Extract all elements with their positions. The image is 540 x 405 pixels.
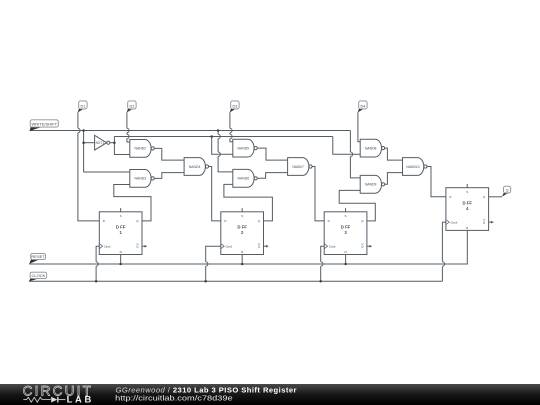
wire rail-A to NAND3 input — [84, 131, 130, 173]
svg-text:D FF: D FF — [116, 224, 126, 229]
junction node 8 — [344, 263, 347, 266]
flag D4 — [358, 101, 367, 113]
wire DFF1 R stub — [120, 255, 122, 265]
svg-text:D FF: D FF — [462, 200, 472, 205]
svg-text:D3: D3 — [232, 104, 237, 108]
D flip-flop U4 (D FF 4) — [446, 184, 494, 230]
wire DFF2 clock feed — [206, 246, 221, 281]
wire rail-A to NAND6 input — [218, 131, 233, 172]
wire WRITE/SHIFT rail — [30, 130, 351, 132]
flag RESET — [29, 253, 45, 264]
wire NAND10 out to DFF4 D — [427, 167, 446, 197]
junction node 9 — [95, 280, 98, 283]
NAND gate NAND6 — [233, 169, 257, 187]
wire D4 to NAND8 input — [358, 112, 360, 142]
NAND gate NAND10 — [403, 158, 428, 176]
svg-text:Clock: Clock — [329, 244, 336, 248]
footer CircuitLab bar — [0, 384, 540, 405]
NAND gate NAND8 — [360, 139, 385, 157]
junction node 10 — [204, 280, 207, 283]
svg-text:NAND9: NAND9 — [365, 183, 377, 187]
flag Q — [502, 186, 511, 197]
wire CLOCK rail — [29, 280, 443, 282]
svg-text:NAND10: NAND10 — [406, 165, 419, 169]
wire rail-B to NAND5 input — [212, 137, 233, 155]
svg-text:NAND8: NAND8 — [365, 146, 377, 150]
wire DFF4 clock feed — [442, 222, 446, 281]
junction node 6 — [119, 263, 122, 266]
svg-text:NAND7: NAND7 — [292, 165, 304, 169]
svg-text:Q: Q — [506, 188, 509, 192]
NAND gate NAND4 — [184, 158, 208, 176]
svg-text:NAND3: NAND3 — [135, 177, 147, 181]
inverter NOT1 — [95, 135, 115, 150]
wire NOT1 output node riser — [113, 137, 115, 143]
wire NAND5 out to NAND7 in1 — [257, 148, 287, 160]
wire NOT1 output to NAND2 input — [114, 143, 129, 155]
wire NAND8 out to NAND10 in1 — [385, 148, 403, 160]
junction node 2 — [217, 129, 220, 132]
svg-text:LAB: LAB — [67, 394, 94, 405]
svg-text:NAND6: NAND6 — [238, 177, 250, 181]
svg-text:S: S — [241, 214, 243, 218]
svg-text:S: S — [345, 214, 347, 218]
D flip-flop U3 (D FF 3) — [324, 208, 372, 254]
wire rail-B to NAND8 input — [333, 137, 360, 155]
wire NAND3 out to NAND4 in2 — [154, 173, 184, 179]
junction node 11 — [319, 280, 322, 283]
wire DFF1 Q to NAND3 input — [114, 185, 151, 221]
wire NAND4 out to DFF2 D — [209, 167, 221, 221]
wire DFF3 clock feed — [321, 246, 325, 281]
wire DFF4 Q to Q flag — [489, 196, 502, 198]
flag D3 — [230, 101, 239, 113]
wire NOT1-output rail — [114, 136, 332, 138]
junction node 3 — [210, 135, 213, 138]
wire D3 to NAND5 input — [230, 112, 233, 142]
wire RESET rail — [29, 230, 467, 264]
junction node 1 — [82, 129, 85, 132]
flag D2 — [127, 101, 136, 113]
svg-text:Clock: Clock — [451, 220, 458, 224]
svg-text:NAND5: NAND5 — [238, 146, 250, 150]
svg-text:NOT1: NOT1 — [96, 141, 105, 145]
wire NAND2 out to NAND4 in1 — [154, 148, 184, 160]
NAND gate NAND5 — [233, 139, 257, 157]
NAND gate NAND9 — [360, 175, 385, 193]
flag D1 — [78, 101, 87, 113]
wire DFF2 R stub — [241, 255, 243, 265]
svg-text:http://circuitlab.com/c78d39e: http://circuitlab.com/c78d39e — [115, 394, 233, 403]
svg-text:RESET: RESET — [31, 254, 45, 259]
NAND gate NAND3 — [130, 170, 154, 188]
svg-text:NAND4: NAND4 — [189, 165, 201, 169]
wire NAND9 out to NAND10 in2 — [385, 173, 403, 185]
NAND gate NAND2 — [130, 140, 154, 158]
flag CLOCK — [29, 272, 47, 281]
svg-text:CLOCK: CLOCK — [32, 273, 46, 278]
D flip-flop U1 (D FF 1) — [99, 208, 147, 254]
junction node 7 — [241, 263, 244, 266]
svg-text:D FF: D FF — [237, 224, 247, 229]
svg-text:WRITE/SHIFT: WRITE/SHIFT — [31, 122, 57, 127]
wire DFF3 R stub — [345, 255, 347, 265]
svg-text:Clock: Clock — [104, 244, 111, 248]
wire DFF2 Q to NAND6 input — [224, 184, 273, 221]
svg-text:D1: D1 — [80, 104, 85, 108]
svg-text:D2: D2 — [129, 104, 134, 108]
D flip-flop U2 (D FF 2) — [221, 208, 269, 254]
wire tap to NOT1 input — [84, 142, 95, 144]
wire D2 to NAND2 input — [127, 112, 130, 142]
wire DFF1 clock feed — [96, 246, 99, 281]
wire NAND7 out to DFF3 D — [312, 167, 324, 221]
svg-text:NAND2: NAND2 — [135, 147, 147, 151]
svg-text:D FF: D FF — [341, 224, 351, 229]
wire NAND6 out to NAND7 in2 — [257, 173, 287, 179]
svg-text:Clock: Clock — [225, 244, 232, 248]
junction node 4 — [82, 141, 85, 144]
svg-text:D4: D4 — [360, 104, 365, 108]
svg-text:S: S — [466, 190, 468, 194]
wire D1 to DFF1 D input — [78, 112, 99, 221]
wire rail-A to NAND9 input — [350, 131, 360, 178]
wire DFF3 Q to NAND9 input — [339, 190, 375, 221]
junction node 5 — [113, 141, 116, 144]
flag WRITE/SHIFT — [30, 120, 59, 131]
svg-text:S: S — [120, 214, 122, 218]
NAND gate NAND7 — [288, 158, 313, 176]
